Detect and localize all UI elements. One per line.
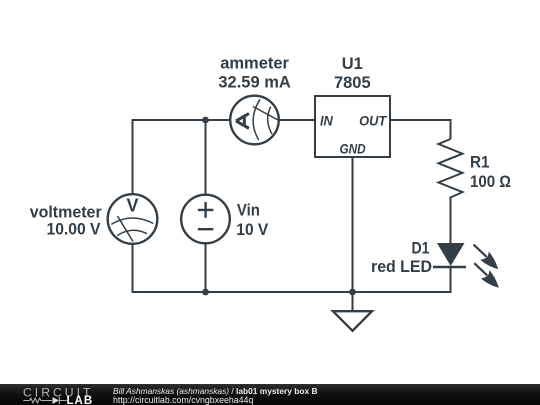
resistor R1 zigzag	[439, 139, 463, 199]
diode D1 LED triangle	[437, 243, 465, 266]
svg-text:LAB: LAB	[67, 395, 94, 405]
node junction dot top (Vin/ammeter)	[202, 117, 209, 124]
svg-text:voltmeter: voltmeter	[30, 204, 103, 222]
wire voltmeter bottom	[132, 244, 134, 293]
voltmeter VM1 circle	[108, 194, 158, 244]
svg-text:GND: GND	[340, 141, 366, 157]
ammeter AM1 needle	[253, 107, 278, 121]
ammeter AM1 circle	[230, 96, 279, 145]
svg-text:OUT: OUT	[359, 112, 388, 128]
wire ammeter to U1 IN	[279, 119, 315, 121]
voltmeter VM1 scale arc large	[111, 218, 153, 224]
CircuitLab logo	[0, 384, 100, 405]
wire bottom rail	[132, 266, 451, 292]
footer credit line 1	[113, 387, 318, 395]
footer credit line 2	[113, 396, 253, 405]
ammeter AM1 scale arc small	[268, 107, 272, 134]
voltmeter VM1 scale arc small	[117, 230, 147, 235]
ground	[352, 292, 354, 311]
svg-text:10 V: 10 V	[236, 221, 268, 239]
voltmeter VM1 needle	[118, 216, 134, 242]
wire resistor bottom to LED	[450, 199, 452, 244]
svg-text:100 Ω: 100 Ω	[470, 173, 511, 191]
svg-text:10.00 V: 10.00 V	[47, 220, 101, 238]
svg-text:V: V	[126, 196, 138, 216]
svg-text:7805: 7805	[334, 74, 371, 92]
svg-text:IN: IN	[320, 112, 334, 128]
wire Vin bottom	[205, 243, 207, 292]
node junction dot bottom (Vin rail)	[202, 289, 209, 296]
wire U1 OUT to right corner	[390, 120, 451, 139]
svg-text:32.59 mA: 32.59 mA	[218, 73, 291, 91]
source V1 minus sign	[198, 228, 214, 230]
svg-text:Vin: Vin	[237, 201, 260, 219]
diode D1 cathode bar	[433, 266, 466, 269]
wire U1 GND pin	[352, 157, 354, 292]
ammeter AM1 scale arc large	[253, 99, 260, 140]
node junction dot ground	[349, 289, 356, 296]
wire left vertical voltmeter top	[132, 119, 134, 194]
svg-text:red LED: red LED	[371, 258, 432, 276]
ammeter AM1 letter A	[236, 114, 249, 129]
wire Vin top	[205, 119, 207, 195]
op-amp U1 regulator box	[315, 96, 390, 157]
diode D1 light arrow upper	[474, 245, 499, 270]
wire top-left horizontal	[132, 119, 231, 121]
source V1 plus sign	[198, 202, 214, 218]
svg-text:ammeter: ammeter	[220, 55, 289, 73]
svg-text:D1: D1	[412, 240, 430, 258]
svg-text:R1: R1	[470, 154, 490, 172]
diode D1 light arrow lower	[474, 263, 499, 288]
source V1 circle	[181, 195, 230, 244]
footer bar	[0, 384, 540, 405]
svg-text:U1: U1	[342, 55, 363, 73]
